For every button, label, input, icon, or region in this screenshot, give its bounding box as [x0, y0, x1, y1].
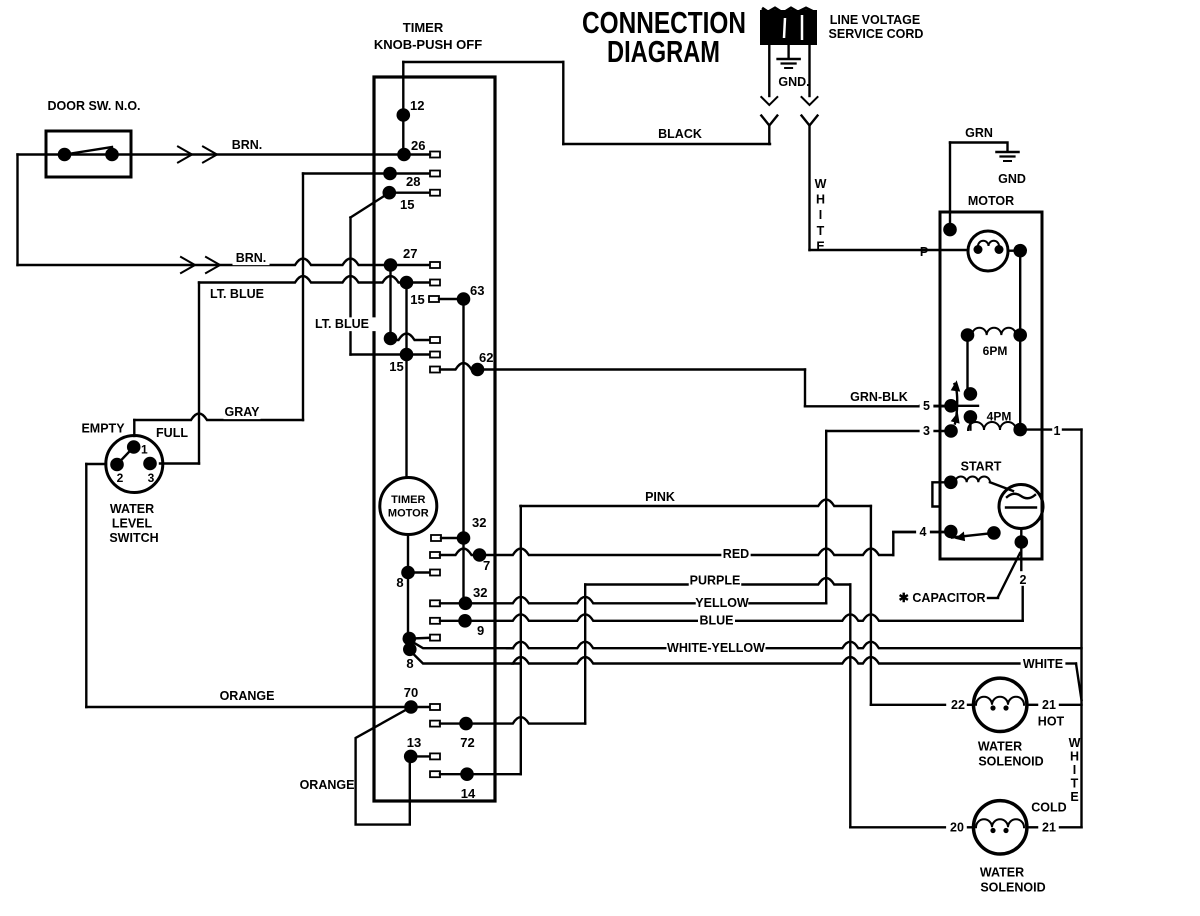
svg-text:SOLENOID: SOLENOID: [980, 881, 1045, 895]
svg-text:I: I: [819, 208, 822, 222]
svg-text:SWITCH: SWITCH: [109, 531, 158, 545]
svg-text:W: W: [1069, 736, 1081, 750]
svg-text:LEVEL: LEVEL: [112, 517, 153, 531]
svg-text:1: 1: [141, 443, 148, 457]
svg-text:COLD: COLD: [1031, 801, 1066, 815]
svg-text:GRN-BLK: GRN-BLK: [850, 390, 908, 404]
svg-text:BRN.: BRN.: [236, 251, 267, 265]
svg-text:9: 9: [477, 623, 484, 638]
svg-text:WATER: WATER: [980, 866, 1024, 880]
svg-text:62: 62: [479, 350, 493, 365]
svg-text:EMPTY: EMPTY: [81, 422, 125, 436]
svg-text:13: 13: [407, 735, 421, 750]
svg-text:PURPLE: PURPLE: [690, 574, 741, 588]
svg-text:KNOB-PUSH OFF: KNOB-PUSH OFF: [374, 37, 482, 52]
svg-text:H: H: [816, 193, 825, 207]
svg-text:SOLENOID: SOLENOID: [978, 755, 1043, 769]
svg-text:72: 72: [460, 735, 474, 750]
svg-text:20: 20: [950, 821, 964, 835]
svg-text:1: 1: [1054, 424, 1061, 438]
svg-text:MOTOR: MOTOR: [968, 194, 1014, 208]
svg-text:6PM: 6PM: [983, 344, 1008, 358]
svg-text:TIMER: TIMER: [391, 494, 425, 506]
svg-text:63: 63: [470, 283, 484, 298]
svg-text:BRN.: BRN.: [232, 138, 263, 152]
svg-text:21: 21: [1042, 698, 1056, 712]
svg-text:12: 12: [410, 98, 424, 113]
svg-text:15: 15: [410, 292, 424, 307]
svg-text:7: 7: [483, 558, 490, 573]
svg-text:GND.: GND.: [778, 75, 809, 89]
svg-text:LT. BLUE: LT. BLUE: [315, 317, 369, 331]
svg-text:3: 3: [923, 424, 930, 438]
svg-text:GRN: GRN: [965, 126, 993, 140]
svg-text:GND: GND: [998, 172, 1026, 186]
svg-text:LT. BLUE: LT. BLUE: [210, 287, 264, 301]
svg-text:22: 22: [951, 698, 965, 712]
svg-text:T: T: [1071, 777, 1079, 791]
svg-text:TIMER: TIMER: [403, 20, 444, 35]
svg-text:E: E: [1070, 790, 1078, 804]
svg-text:✱ CAPACITOR: ✱ CAPACITOR: [898, 591, 985, 605]
svg-text:I: I: [1073, 763, 1076, 777]
svg-text:32: 32: [472, 515, 486, 530]
svg-text:DIAGRAM: DIAGRAM: [607, 34, 720, 69]
svg-text:P: P: [920, 245, 928, 259]
svg-text:32: 32: [473, 585, 487, 600]
svg-text:14: 14: [461, 786, 476, 801]
svg-text:FULL: FULL: [156, 426, 188, 440]
svg-text:2: 2: [1020, 573, 1027, 587]
svg-text:E: E: [816, 239, 824, 253]
svg-text:15: 15: [400, 197, 414, 212]
svg-text:START: START: [961, 460, 1002, 474]
svg-text:DOOR SW. N.O.: DOOR SW. N.O.: [47, 99, 140, 113]
svg-text:2: 2: [117, 471, 124, 485]
svg-text:28: 28: [406, 174, 420, 189]
svg-text:YELLOW: YELLOW: [695, 596, 749, 610]
svg-text:8: 8: [396, 575, 403, 590]
svg-text:GRAY: GRAY: [225, 405, 261, 419]
svg-text:70: 70: [404, 685, 418, 700]
svg-text:ORANGE: ORANGE: [220, 689, 275, 703]
svg-text:H: H: [1070, 750, 1079, 764]
svg-text:WATER: WATER: [110, 502, 154, 516]
svg-text:WHITE-YELLOW: WHITE-YELLOW: [667, 641, 765, 655]
svg-text:26: 26: [411, 138, 425, 153]
svg-text:4: 4: [920, 525, 927, 539]
svg-text:BLACK: BLACK: [658, 127, 702, 141]
svg-text:RED: RED: [723, 547, 749, 561]
svg-text:8: 8: [406, 656, 413, 671]
svg-text:SERVICE CORD: SERVICE CORD: [829, 27, 924, 41]
svg-text:WATER: WATER: [978, 740, 1022, 754]
svg-text:PINK: PINK: [645, 490, 675, 504]
svg-text:15: 15: [389, 359, 403, 374]
svg-text:21: 21: [1042, 821, 1056, 835]
svg-text:LINE VOLTAGE: LINE VOLTAGE: [830, 13, 921, 27]
svg-text:27: 27: [403, 246, 417, 261]
svg-text:3: 3: [148, 471, 155, 485]
svg-text:MOTOR: MOTOR: [388, 508, 429, 520]
svg-text:W: W: [815, 177, 827, 191]
svg-text:T: T: [817, 224, 825, 238]
svg-text:WHITE: WHITE: [1023, 657, 1063, 671]
svg-text:HOT: HOT: [1038, 715, 1065, 729]
svg-text:5: 5: [923, 399, 930, 413]
svg-text:ORANGE: ORANGE: [300, 778, 355, 792]
svg-text:BLUE: BLUE: [699, 614, 733, 628]
